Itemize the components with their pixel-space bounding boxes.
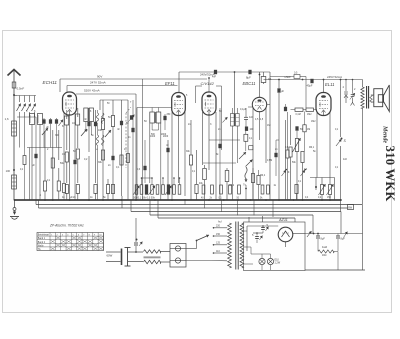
BW box <box>348 205 354 210</box>
resistor r239 <box>238 185 241 194</box>
svg-text:μF: μF <box>281 90 284 93</box>
svg-text:Feld: Feld <box>322 245 328 249</box>
resistor pot 6 <box>162 185 165 195</box>
osc switch arrows <box>239 152 246 159</box>
tube ECH11 <box>63 92 77 115</box>
filter cap 8uF no1 <box>312 229 314 234</box>
wires EF11 pins <box>171 112 173 200</box>
resistors cluster B <box>65 152 68 162</box>
output transformer secondary <box>370 95 373 102</box>
coupling cap to EL11 <box>263 72 265 77</box>
cap 45uF blob <box>310 79 313 83</box>
svg-text:1M2: 1M2 <box>307 114 312 116</box>
cathode resistors EL11 <box>321 185 324 195</box>
tube EL11 <box>316 93 331 116</box>
line cap <box>135 218 137 242</box>
wire switch riser x=29.5 <box>29 96 31 103</box>
svg-text:46Ω: 46Ω <box>322 254 327 257</box>
S contacts <box>282 170 287 176</box>
svg-text:100: 100 <box>6 169 11 173</box>
bus drop stubs mid <box>184 200 186 205</box>
svg-text:520V 42mA: 520V 42mA <box>84 89 100 93</box>
wire switch riser x=19.5 <box>19 96 21 103</box>
svg-text:TA: TA <box>38 248 41 251</box>
svg-text:ω: ω <box>96 149 98 151</box>
resistor r268 <box>267 185 270 194</box>
svg-text:ECH11: ECH11 <box>43 80 58 85</box>
caps near EF11 <box>166 148 169 152</box>
svg-text:310 WKK: 310 WKK <box>383 146 397 202</box>
wire switch riser x=24.5 <box>24 96 26 103</box>
svg-text:45μF: 45μF <box>307 84 313 88</box>
coil loops column 2 <box>102 113 104 123</box>
fuse F1 <box>175 246 180 251</box>
wire speaker links <box>371 94 374 96</box>
coil core lines A <box>29 115 31 123</box>
svg-text:Auf: Auf <box>218 221 222 224</box>
pot row stubs <box>141 178 143 185</box>
svg-text:300: 300 <box>55 134 60 137</box>
svg-text:4nF: 4nF <box>343 158 348 161</box>
tone caps <box>344 91 348 93</box>
voltage selector arm <box>186 248 197 250</box>
svg-text:0,5nF: 0,5nF <box>17 87 25 91</box>
transformer secondary taps <box>244 230 247 232</box>
svg-text:0,5M: 0,5M <box>267 160 272 162</box>
svg-text:Mende: Mende <box>382 125 388 143</box>
svg-text:EF11: EF11 <box>165 81 175 86</box>
wire switch riser x=34.5 <box>34 96 36 103</box>
svg-text:0,1μF: 0,1μF <box>240 108 247 111</box>
resistor 50k <box>51 158 54 168</box>
tube top pin risers <box>208 78 210 92</box>
svg-text:2000: 2000 <box>163 136 169 138</box>
coupling cap 8uF <box>248 70 251 74</box>
power transformer secondary <box>240 223 244 268</box>
svg-text:90V: 90V <box>97 75 102 79</box>
TA terminal dot <box>136 239 138 241</box>
signal line to EL11 grid <box>270 76 294 78</box>
svg-text:8μF: 8μF <box>321 238 326 241</box>
input coil block <box>30 114 35 125</box>
svg-text:110: 110 <box>216 250 220 253</box>
resistor pot 9 <box>178 185 181 195</box>
antenna coil L1 <box>12 121 17 136</box>
resistor pot 8 <box>173 185 176 195</box>
switch S2 <box>307 231 312 237</box>
resistors cluster D <box>251 174 254 183</box>
antenna switch <box>12 82 16 88</box>
switch S <box>336 139 342 146</box>
svg-text:1M: 1M <box>62 153 65 156</box>
svg-text:247V 52mA: 247V 52mA <box>90 81 106 85</box>
tube EBC11 <box>252 97 266 111</box>
tap 150 <box>213 235 227 237</box>
line filter choke bottom <box>144 260 161 264</box>
resistor column A <box>43 181 46 191</box>
dial lamps <box>259 258 265 264</box>
small boxes A mid <box>23 156 26 165</box>
svg-text:2000: 2000 <box>161 134 167 136</box>
svg-text:1M: 1M <box>307 129 310 131</box>
power transformer primary <box>228 223 232 268</box>
output transformer primary <box>361 87 364 108</box>
mid components B2 <box>101 150 104 160</box>
svg-text:Betriebsart: Betriebsart <box>38 234 49 237</box>
svg-text:150: 150 <box>216 233 221 236</box>
bus drop wires <box>121 196 123 208</box>
resistor pot 5 <box>156 185 159 195</box>
tap 220 <box>213 227 227 229</box>
wire band switch bus <box>17 116 36 118</box>
resistor r212 <box>211 185 214 194</box>
box 40k <box>203 169 207 180</box>
svg-text:1M2: 1M2 <box>311 121 316 123</box>
trimmer cap 50pF <box>130 115 133 119</box>
svg-text:50k 0,1 50k 0,3 50k: 50k 0,1 50k 0,3 50k <box>133 197 156 200</box>
svg-text:1000: 1000 <box>150 136 156 138</box>
trimmer arrows B <box>81 129 87 136</box>
svg-text:AZ11: AZ11 <box>278 218 288 222</box>
wavy adjuster <box>245 167 247 179</box>
ground <box>14 200 16 208</box>
svg-text:245V 52mA: 245V 52mA <box>327 75 342 79</box>
svg-text:M0,1: M0,1 <box>309 147 315 149</box>
power transformer core <box>235 222 237 270</box>
wire 90V line <box>60 78 207 80</box>
tap 125 <box>213 244 227 246</box>
small box D <box>249 146 253 150</box>
IF transformer 1 <box>65 116 69 125</box>
bottom line power <box>305 269 365 271</box>
resistors E <box>289 147 292 157</box>
svg-text:0,1M: 0,1M <box>296 114 301 116</box>
trimmer cap T1 <box>42 128 48 135</box>
junction dots bus <box>14 199 16 201</box>
ECH11 pin wires <box>63 113 65 183</box>
tube CV142 <box>202 92 216 115</box>
tuning gang dashed link <box>125 113 127 168</box>
mains plug <box>106 251 121 253</box>
wire line to EBC11 grid <box>259 72 261 98</box>
caps in power box <box>261 227 265 229</box>
speaker <box>374 89 383 107</box>
band switch S1 contacts <box>17 104 21 112</box>
resistor pot 3 <box>145 185 148 195</box>
antenna <box>8 70 21 76</box>
svg-text:220: 220 <box>216 225 221 228</box>
wire links D <box>209 139 240 141</box>
cap C8b <box>336 235 340 237</box>
wire ECH11 cathode <box>69 115 71 200</box>
extra verticals A <box>19 117 21 148</box>
band table <box>37 233 104 251</box>
oscillator coil <box>231 114 235 127</box>
resistor r230 <box>229 185 232 194</box>
sub bus lines <box>36 204 363 206</box>
wire AVC link <box>310 177 335 179</box>
output transformer core <box>366 86 368 109</box>
svg-text:M0,4: M0,4 <box>260 175 266 177</box>
cap 100nF <box>245 127 248 131</box>
svg-text:1M: 1M <box>267 124 270 127</box>
cap 0uF blob <box>277 88 280 92</box>
svg-text:EL11: EL11 <box>325 82 334 87</box>
svg-text:S: S <box>288 170 290 174</box>
wire plate line EF11 <box>179 71 270 73</box>
fuse F2 <box>175 258 180 263</box>
tube AZ11 <box>278 227 293 242</box>
choke core <box>144 256 161 258</box>
cap C8a <box>316 235 320 237</box>
power unit box <box>244 222 306 271</box>
svg-text:USW: USW <box>285 75 292 79</box>
wire B+ to transformer drop <box>341 233 363 235</box>
cap 250pF <box>163 116 166 120</box>
resistor r262.5 <box>261 185 264 194</box>
svg-text:8μF: 8μF <box>246 76 251 80</box>
wire B+ line right <box>264 79 363 81</box>
coil loops column 1 <box>96 113 98 123</box>
junction dots top <box>259 74 261 76</box>
wire tops B2 <box>100 99 128 101</box>
svg-text:1,2W: 1,2W <box>275 262 281 265</box>
svg-text:8μF: 8μF <box>341 238 346 241</box>
resistor 1M vertical <box>303 125 306 132</box>
volume pot E <box>295 139 298 152</box>
cap E blob <box>284 107 287 111</box>
svg-text:Band 1: Band 1 <box>38 238 46 240</box>
wires in power box <box>247 225 278 227</box>
tube EF11 <box>172 93 186 116</box>
tap 110 <box>213 252 227 254</box>
wire box drops <box>248 217 250 222</box>
main ground bus <box>14 199 341 201</box>
svg-text:Welle: Welle <box>38 245 44 247</box>
resistor r203.5 <box>202 185 205 194</box>
svg-text:Band 2: Band 2 <box>38 242 46 244</box>
cap blobs <box>87 122 90 126</box>
svg-text:1,6: 1,6 <box>5 117 9 121</box>
svg-text:4nF: 4nF <box>212 76 217 79</box>
padder cap <box>244 116 248 118</box>
svg-text:EBC11: EBC11 <box>243 81 256 86</box>
cap row dark <box>42 119 45 123</box>
svg-text:60W: 60W <box>107 254 113 258</box>
wire 247V line <box>67 85 178 87</box>
IF components mixer <box>101 119 104 130</box>
resistor pot 1 <box>135 185 138 195</box>
fuse box <box>170 244 186 268</box>
node antenna junction <box>13 94 15 96</box>
CV142 grid frame <box>196 85 203 87</box>
svg-text:C/V142: C/V142 <box>201 81 215 86</box>
wire verticals cluster B tops <box>66 110 68 119</box>
cluster E verticals <box>269 72 271 200</box>
wire link y=117 <box>27 147 62 149</box>
resistor 0,1 D <box>244 134 248 141</box>
resistor pot 7 <box>167 185 170 195</box>
resistor r221 <box>220 185 223 194</box>
grid resistors horizontal E <box>295 108 303 111</box>
trimmer arrow D <box>223 117 228 123</box>
antenna coil L2 <box>12 175 17 189</box>
resistor pot 4 <box>151 185 154 195</box>
wire 520V line <box>76 93 136 95</box>
resistor pot 2 <box>140 185 143 195</box>
line filter choke top <box>144 250 161 254</box>
svg-text:125: 125 <box>216 242 221 245</box>
svg-text:ZP-Abschn. 70/502 kHz: ZP-Abschn. 70/502 kHz <box>49 224 84 228</box>
IF transformer windings <box>137 107 172 109</box>
